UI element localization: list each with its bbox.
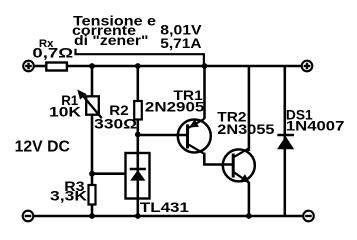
- svg-text:5,71A: 5,71A: [160, 35, 201, 51]
- svg-text:Rx: Rx: [39, 38, 55, 50]
- svg-text:2N3055: 2N3055: [217, 121, 274, 137]
- svg-text:2N2905: 2N2905: [145, 98, 205, 114]
- svg-text:330Ω: 330Ω: [94, 116, 137, 132]
- svg-text:di "zener": di "zener": [74, 32, 149, 48]
- svg-text:12V DC: 12V DC: [15, 138, 70, 155]
- svg-text:3,3K: 3,3K: [50, 188, 87, 204]
- svg-text:1N4007: 1N4007: [286, 118, 345, 134]
- svg-text:TL431: TL431: [140, 199, 189, 215]
- svg-text:10K: 10K: [49, 104, 81, 120]
